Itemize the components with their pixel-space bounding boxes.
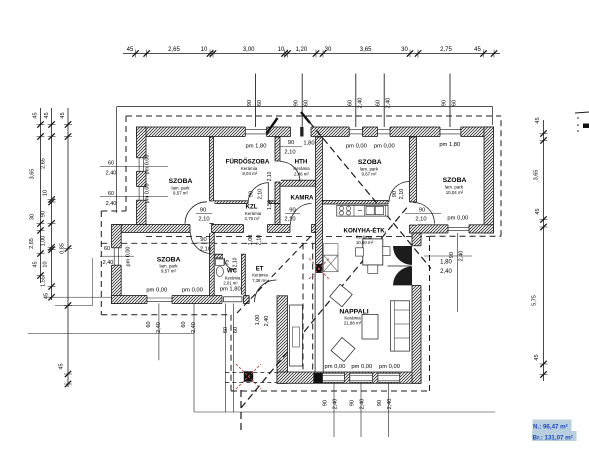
svg-text:2,10: 2,10 (233, 257, 239, 267)
svg-text:2,10: 2,10 (258, 189, 264, 200)
svg-text:60: 60 (347, 100, 353, 106)
svg-text:45: 45 (44, 112, 50, 118)
door arc hth (280, 162, 300, 182)
porch roof dashed ties (225, 371, 277, 373)
bottom window extensions (wing) (333, 383, 335, 437)
window lower szoba south wall (147, 295, 172, 305)
svg-text:30: 30 (30, 214, 36, 220)
door arc right szoba (414, 203, 435, 224)
window right szoba (top wall) (440, 126, 461, 137)
window mid szoba 2 (378, 126, 391, 137)
svg-text:2,10: 2,10 (257, 235, 263, 246)
svg-text:1,00: 1,00 (255, 315, 261, 326)
door opening kamra (290, 224, 312, 234)
svg-text:60: 60 (376, 100, 382, 106)
svg-text:pm 0,00: pm 0,00 (379, 364, 400, 370)
svg-text:2,10: 2,10 (198, 217, 209, 223)
svg-text:SZOBA: SZOBA (169, 178, 193, 185)
wall south of lower-left block (112, 296, 250, 304)
svg-text:2,40: 2,40 (387, 399, 393, 410)
window wc south wall (222, 295, 244, 305)
window furdoszoba (top wall) (245, 126, 266, 137)
top window axis extension lines (255, 74, 257, 128)
window hth (top wall) (291, 126, 312, 137)
svg-text:45: 45 (535, 117, 541, 123)
wall wing south (277, 372, 421, 383)
svg-text:HTH: HTH (295, 159, 308, 166)
door opening south band: kzl to lower szoba (190, 224, 212, 234)
window annotation lower block (100, 255, 134, 257)
wall west upper (137, 127, 147, 225)
svg-text:5,75: 5,75 (532, 295, 538, 306)
svg-text:pm 0,00: pm 0,00 (346, 143, 367, 149)
svg-text:75: 75 (225, 260, 231, 266)
roof valley dashed verticals (302, 244, 304, 373)
wall east upper (484, 127, 494, 233)
svg-text:90: 90 (249, 191, 255, 197)
svg-text:pm 1,80: pm 1,80 (439, 142, 460, 148)
french door opening east wall (411, 246, 422, 286)
svg-text:90: 90 (247, 100, 253, 106)
kitchen counter (337, 205, 388, 216)
stove burners (339, 206, 343, 210)
svg-text:2,40: 2,40 (459, 251, 465, 262)
svg-text:45: 45 (33, 261, 39, 267)
svg-text:90: 90 (294, 100, 300, 106)
svg-text:2,10: 2,10 (267, 171, 273, 181)
svg-text:90: 90 (350, 400, 356, 406)
svg-text:60: 60 (233, 327, 239, 333)
svg-text:60: 60 (181, 321, 187, 327)
wall west of lower-left block (112, 225, 122, 304)
svg-text:10: 10 (201, 47, 208, 53)
area summary blue box (533, 420, 572, 432)
svg-text:10,04 m²: 10,04 m² (446, 190, 464, 195)
svg-text:10: 10 (43, 261, 49, 267)
sink (366, 206, 374, 214)
fridge with X (kitchen) (324, 244, 339, 256)
svg-text:30: 30 (401, 47, 408, 53)
dining table (363, 239, 383, 265)
open edge lines below chimney (314, 273, 316, 372)
svg-text:2,10: 2,10 (399, 189, 405, 200)
svg-text:9,57 m²: 9,57 m² (173, 191, 188, 196)
door opening wc (223, 253, 236, 258)
door opening hth west (274, 161, 281, 182)
svg-text:N.: 96,47 m²: N.: 96,47 m² (533, 423, 568, 430)
left chain B (51, 108, 53, 300)
svg-text:3,65: 3,65 (30, 169, 36, 180)
svg-text:2,65: 2,65 (29, 238, 35, 249)
svg-text:1,00: 1,00 (248, 235, 254, 246)
svg-text:60: 60 (108, 161, 114, 167)
wall mid/right szoba (410, 137, 417, 202)
helper line y333 (28, 333, 194, 335)
svg-text:60: 60 (452, 100, 458, 106)
svg-text:90: 90 (200, 208, 206, 214)
svg-text:pm 0,00: pm 0,00 (126, 247, 132, 267)
svg-text:lam. park: lam. park (445, 185, 464, 190)
door arc furdoszoba (248, 183, 269, 204)
door arc entry (255, 280, 277, 302)
svg-text:3,65: 3,65 (360, 47, 372, 53)
svg-text:pm 1,80: pm 1,80 (220, 286, 241, 292)
wall north (top) (137, 127, 494, 137)
svg-text:45: 45 (59, 363, 65, 369)
bottom window extensions (lower-left block) (158, 304, 160, 361)
section line B dashed (240, 388, 242, 430)
svg-text:90: 90 (392, 191, 398, 197)
left chain C (67, 108, 69, 387)
opening south band: kzl to et (1.00) (244, 224, 268, 234)
svg-text:45: 45 (33, 112, 39, 118)
window annotation upper (100, 165, 168, 167)
svg-text:2,40: 2,40 (103, 260, 114, 266)
entry door opening (249, 295, 276, 305)
french door leaves (393, 246, 412, 265)
svg-text:30: 30 (325, 47, 332, 53)
svg-text:2,40: 2,40 (106, 171, 117, 177)
svg-text:2,40: 2,40 (360, 399, 366, 410)
svg-text:60: 60 (146, 321, 152, 327)
svg-text:2,65: 2,65 (168, 47, 180, 53)
svg-text:90: 90 (289, 208, 295, 214)
svg-text:2,40: 2,40 (106, 201, 117, 207)
wall kamra west (275, 204, 280, 225)
svg-text:45: 45 (534, 354, 540, 360)
svg-text:pm 0,00: pm 0,00 (325, 364, 346, 370)
svg-text:2,10: 2,10 (415, 217, 426, 223)
partition kzl north b (269, 201, 277, 204)
svg-text:pm 0,00: pm 0,00 (351, 364, 372, 370)
0,85 annotation (92, 258, 94, 306)
wall lower szoba east (210, 233, 215, 296)
svg-text:pm 0,00: pm 0,00 (145, 155, 151, 175)
svg-text:FÜRDŐSZOBA: FÜRDŐSZOBA (226, 159, 270, 166)
svg-text:2,10: 2,10 (284, 150, 295, 156)
svg-text:1,80: 1,80 (440, 260, 452, 266)
door opening szoba1 east wall (209, 201, 215, 224)
svg-text:1,80: 1,80 (303, 141, 314, 147)
svg-text:pm 0,00: pm 0,00 (146, 288, 167, 294)
wc toilet (216, 259, 225, 266)
svg-text:3,00: 3,00 (243, 47, 255, 53)
window szoba1 west wall upper (136, 158, 146, 172)
right szoba south opening extension (457, 233, 459, 312)
svg-text:pm 0,00: pm 0,00 (145, 183, 151, 203)
svg-text:45: 45 (44, 293, 50, 299)
roof line dashed middle (146, 235, 429, 237)
tv cabinet west (290, 305, 303, 366)
svg-text:SZOBA: SZOBA (157, 257, 181, 264)
svg-text:10: 10 (43, 190, 49, 196)
svg-text:60: 60 (304, 100, 310, 106)
wall column on south band (313, 373, 322, 383)
svg-text:WC: WC (227, 269, 238, 275)
wall wc east (242, 254, 246, 296)
chairs (368, 265, 378, 273)
svg-text:45: 45 (127, 47, 134, 53)
door arc lower szoba (191, 233, 212, 254)
door arc mid szoba (389, 182, 410, 203)
svg-text:KONYHA-ÉTK.: KONYHA-ÉTK. (344, 227, 387, 235)
svg-text:SZOBA: SZOBA (358, 159, 382, 166)
svg-text:9,57 m²: 9,57 m² (161, 269, 176, 274)
svg-text:21,88 m²: 21,88 m² (344, 321, 362, 326)
svg-text:90: 90 (377, 400, 383, 406)
window annotation upper 2 (100, 196, 168, 198)
svg-text:90: 90 (442, 100, 448, 106)
svg-text:2,75: 2,75 (440, 47, 452, 53)
svg-text:2,40: 2,40 (264, 316, 270, 327)
extension line to chain B bottom (44, 296, 112, 298)
windows wing south wall (323, 373, 345, 382)
svg-text:3,65: 3,65 (534, 170, 540, 181)
chimney column (315, 264, 322, 273)
door openings corridor (mid & right szoba) (409, 202, 418, 225)
top dimension chain (123, 53, 500, 55)
svg-text:45: 45 (60, 112, 66, 118)
svg-text:10: 10 (278, 47, 285, 53)
helper line y412 (194, 411, 495, 413)
wall szoba1 east (210, 137, 214, 225)
svg-text:8,04 m²: 8,04 m² (242, 171, 257, 176)
opening right szoba south (pm 0.00) (448, 224, 469, 234)
svg-text:pm 0,00: pm 0,00 (447, 216, 468, 222)
svg-text:2,40: 2,40 (156, 322, 162, 333)
svg-text:60: 60 (108, 191, 114, 197)
svg-text:10,60 m²: 10,60 m² (356, 240, 374, 245)
door opening furdoszoba partition (248, 200, 269, 204)
window mid szoba 1 (349, 126, 362, 137)
svg-text:90: 90 (288, 140, 294, 146)
partition kzl north a (214, 201, 248, 204)
svg-text:1,00: 1,00 (41, 236, 47, 247)
svg-text:Kerámia: Kerámia (252, 273, 268, 278)
svg-text:Br.: 131,07 m²: Br.: 131,07 m² (533, 434, 573, 441)
svg-text:1,20: 1,20 (296, 47, 308, 53)
wall nappali west (277, 296, 288, 384)
right chain (543, 120, 545, 381)
svg-text:2,40: 2,40 (440, 269, 452, 275)
svg-text:2,65: 2,65 (41, 158, 47, 169)
svg-text:90: 90 (200, 237, 206, 243)
wall hth south (280, 180, 316, 186)
svg-text:90: 90 (419, 208, 425, 214)
window lower szoba west wall (111, 248, 122, 265)
svg-text:1,55: 1,55 (41, 276, 47, 287)
svg-text:2,01 m²: 2,01 m² (223, 281, 238, 286)
wall wc north (212, 254, 223, 258)
svg-text:1,50: 1,50 (267, 200, 273, 210)
door arc szoba1 (from kzl) (185, 202, 207, 224)
section line C dashed (short, ET) (237, 235, 312, 313)
svg-text:Kerámia: Kerámia (356, 235, 373, 240)
svg-text:2,10: 2,10 (284, 217, 295, 223)
door arc kamra (291, 204, 312, 225)
door arc wc (224, 258, 236, 270)
svg-text:pm 0,00: pm 0,00 (374, 143, 395, 149)
svg-text:90: 90 (449, 252, 455, 258)
svg-text:NAPPALI: NAPPALI (339, 309, 368, 316)
porch column (244, 371, 253, 381)
svg-text:2,40: 2,40 (333, 399, 339, 410)
svg-text:2,70 m²: 2,70 m² (245, 216, 260, 221)
window szoba1 west wall lower (136, 187, 146, 201)
porch edge lines (224, 304, 226, 413)
left chain A (40, 108, 42, 283)
svg-text:pm 0,00: pm 0,00 (182, 288, 203, 294)
svg-text:90: 90 (41, 211, 47, 217)
eave dashed roof outline (126, 115, 501, 117)
svg-text:90: 90 (323, 400, 329, 406)
frame extension line (116, 107, 118, 213)
partition konyha north (323, 201, 389, 205)
svg-text:7,38 m²: 7,38 m² (252, 278, 267, 283)
svg-text:2,40: 2,40 (191, 322, 197, 333)
svg-text:KAMRA: KAMRA (290, 195, 314, 202)
svg-text:60: 60 (257, 100, 263, 106)
svg-text:45: 45 (535, 208, 541, 214)
wall south band east part (under right szoba) (410, 225, 494, 233)
coffee table (362, 315, 378, 340)
sofa east (391, 301, 410, 351)
svg-text:KZL: KZL (245, 204, 257, 211)
svg-text:0,85: 0,85 (60, 243, 66, 254)
svg-text:60: 60 (104, 246, 110, 252)
svg-text:Kerámia: Kerámia (293, 166, 310, 171)
right edge mark (575, 112, 589, 113)
svg-text:9,67 m²: 9,67 m² (362, 172, 377, 177)
wall wing east (412, 233, 421, 383)
svg-text:2,46 m²: 2,46 m² (294, 172, 309, 177)
armchair diamond 1 (330, 284, 353, 307)
wall south band west part (112, 225, 323, 233)
svg-text:60: 60 (223, 327, 229, 333)
svg-text:SZOBA: SZOBA (443, 177, 467, 184)
section end mark (267, 118, 278, 134)
wall hth west (275, 137, 280, 204)
section line A dashed (302, 113, 431, 269)
svg-text:45: 45 (474, 47, 481, 53)
svg-text:pm 1,80: pm 1,80 (246, 143, 267, 149)
svg-text:2,10: 2,10 (200, 247, 211, 253)
wall hth/szoba 30cm + konyha west (316, 137, 323, 265)
